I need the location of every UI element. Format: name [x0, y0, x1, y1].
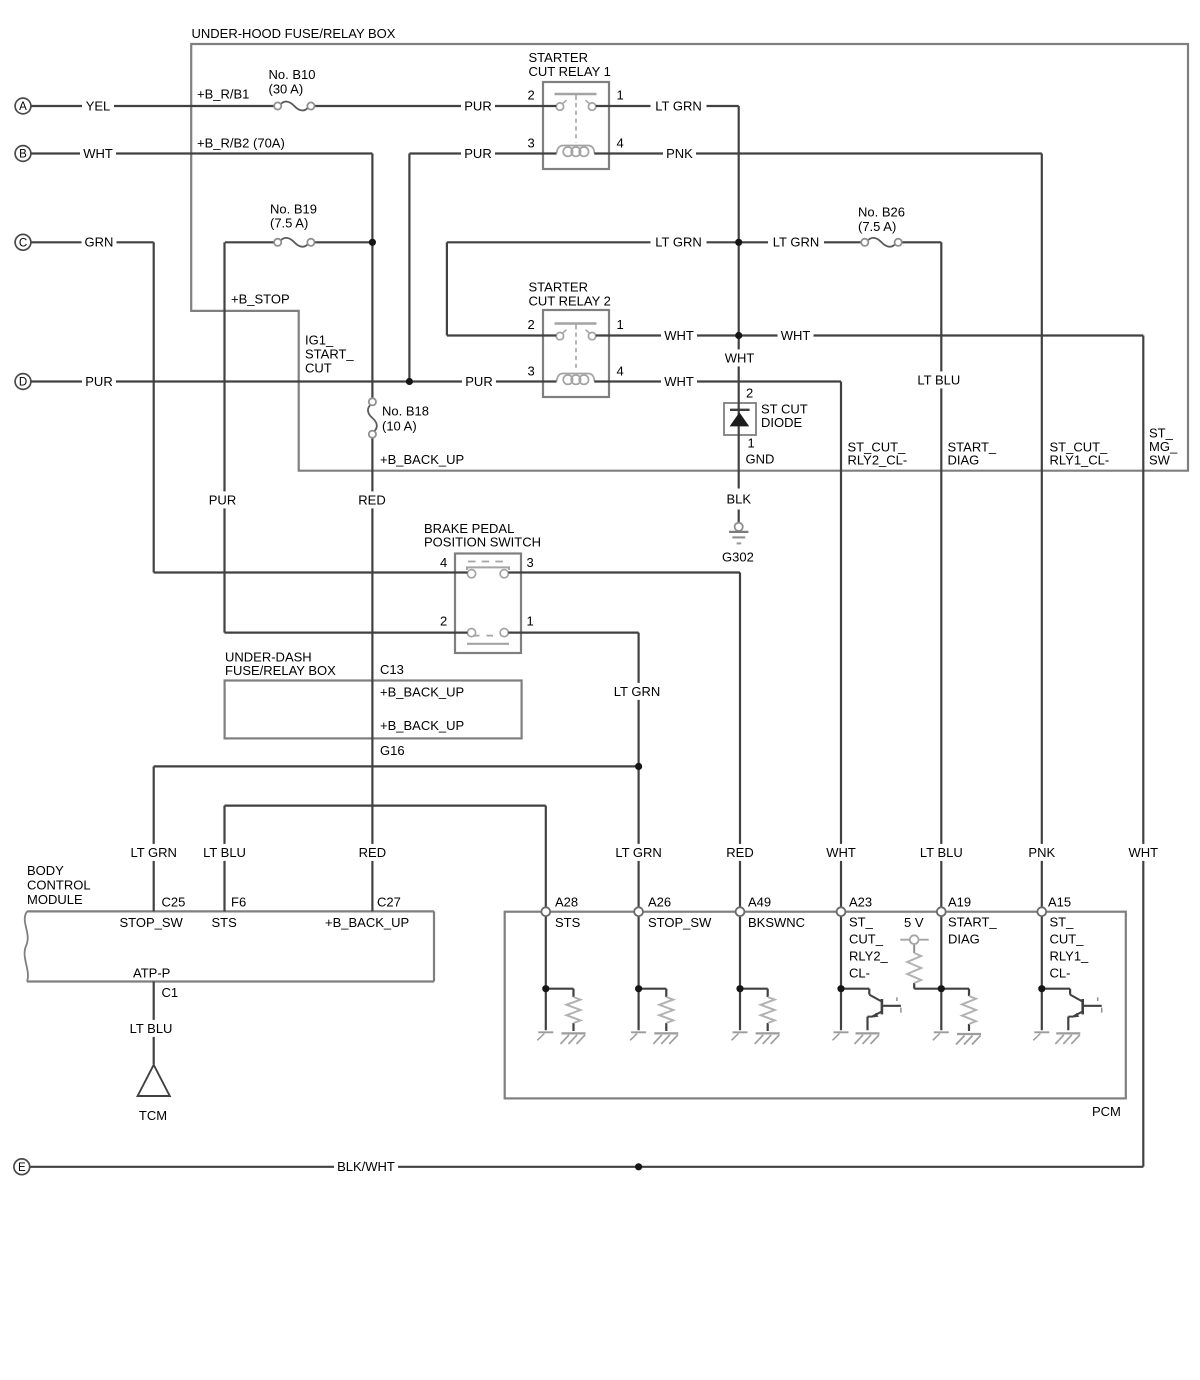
svg-text:4: 4 — [617, 364, 624, 379]
svg-text:POSITION SWITCH: POSITION SWITCH — [424, 535, 541, 550]
svg-text:STARTER: STARTER — [529, 50, 588, 65]
svg-text:C1: C1 — [162, 985, 179, 1000]
svg-text:BLK/WHT: BLK/WHT — [337, 1159, 395, 1174]
svg-text:RLY2_CL-: RLY2_CL- — [848, 453, 908, 468]
svg-text:+B_BACK_UP: +B_BACK_UP — [380, 718, 464, 733]
svg-text:No. B10: No. B10 — [269, 67, 316, 82]
svg-text:4: 4 — [440, 555, 447, 570]
svg-text:A49: A49 — [748, 895, 771, 910]
svg-text:G16: G16 — [380, 743, 405, 758]
svg-text:LT GRN: LT GRN — [655, 98, 701, 113]
svg-text:1: 1 — [617, 317, 624, 332]
svg-text:TCM: TCM — [139, 1108, 167, 1123]
svg-text:CUT RELAY 2: CUT RELAY 2 — [529, 294, 611, 309]
svg-text:5 V: 5 V — [904, 915, 924, 930]
svg-text:E: E — [18, 1162, 26, 1174]
svg-text:STS: STS — [555, 915, 581, 930]
svg-text:+B_R/B2 (70A): +B_R/B2 (70A) — [197, 136, 285, 151]
svg-text:RED: RED — [358, 492, 385, 507]
svg-text:+B_BACK_UP: +B_BACK_UP — [380, 452, 464, 467]
svg-text:WHT: WHT — [826, 845, 856, 860]
svg-text:4: 4 — [617, 136, 624, 151]
svg-text:WHT: WHT — [1128, 845, 1158, 860]
svg-text:STOP_SW: STOP_SW — [120, 915, 184, 930]
svg-text:C25: C25 — [162, 895, 186, 910]
svg-text:LT GRN: LT GRN — [614, 684, 660, 699]
svg-text:PNK: PNK — [1028, 845, 1055, 860]
svg-text:RLY2_: RLY2_ — [849, 949, 889, 964]
svg-text:RLY1_CL-: RLY1_CL- — [1050, 453, 1110, 468]
svg-text:A26: A26 — [648, 895, 671, 910]
svg-text:D: D — [19, 377, 27, 389]
svg-text:GND: GND — [746, 452, 775, 467]
svg-text:WHT: WHT — [83, 146, 113, 161]
svg-text:ATP-P: ATP-P — [133, 966, 170, 981]
svg-text:UNDER-HOOD FUSE/RELAY BOX: UNDER-HOOD FUSE/RELAY BOX — [192, 26, 396, 41]
svg-text:C27: C27 — [377, 895, 401, 910]
svg-text:ST_: ST_ — [1050, 915, 1075, 930]
svg-text:+B_STOP: +B_STOP — [231, 292, 290, 307]
svg-text:3: 3 — [528, 364, 535, 379]
svg-text:CUT_: CUT_ — [849, 932, 884, 947]
svg-text:PUR: PUR — [464, 98, 491, 113]
svg-text:2: 2 — [440, 614, 447, 629]
svg-text:START_: START_ — [948, 915, 997, 930]
svg-text:LT BLU: LT BLU — [203, 845, 246, 860]
svg-text:1: 1 — [617, 88, 624, 103]
svg-text:FUSE/RELAY BOX: FUSE/RELAY BOX — [225, 663, 336, 678]
svg-text:No. B26: No. B26 — [858, 205, 905, 220]
svg-text:BLK: BLK — [727, 491, 752, 506]
svg-text:(7.5 A): (7.5 A) — [270, 216, 308, 231]
svg-text:No. B18: No. B18 — [382, 404, 429, 419]
svg-text:C: C — [19, 238, 27, 250]
svg-text:BKSWNC: BKSWNC — [748, 915, 805, 930]
svg-text:C13: C13 — [380, 662, 404, 677]
svg-text:RED: RED — [359, 845, 386, 860]
svg-text:PUR: PUR — [85, 374, 112, 389]
svg-text:ST_: ST_ — [849, 915, 874, 930]
svg-text:1: 1 — [527, 614, 534, 629]
svg-text:G302: G302 — [722, 550, 754, 565]
svg-text:LT BLU: LT BLU — [920, 845, 963, 860]
svg-text:CUT_: CUT_ — [1050, 932, 1085, 947]
svg-text:2: 2 — [746, 386, 753, 401]
svg-text:CONTROL: CONTROL — [27, 878, 91, 893]
svg-text:A28: A28 — [555, 895, 578, 910]
svg-text:SW: SW — [1149, 453, 1171, 468]
svg-text:YEL: YEL — [86, 98, 111, 113]
svg-text:CUT RELAY 1: CUT RELAY 1 — [529, 64, 611, 79]
svg-text:A15: A15 — [1048, 895, 1071, 910]
svg-text:PUR: PUR — [209, 492, 236, 507]
svg-text:GRN: GRN — [85, 235, 114, 250]
svg-text:LT GRN: LT GRN — [773, 235, 819, 250]
svg-text:(7.5 A): (7.5 A) — [858, 219, 896, 234]
svg-text:WHT: WHT — [725, 350, 755, 365]
svg-text:WHT: WHT — [664, 374, 694, 389]
svg-text:+B_BACK_UP: +B_BACK_UP — [325, 915, 409, 930]
svg-text:RLY1_: RLY1_ — [1050, 949, 1090, 964]
svg-text:+B_R/B1: +B_R/B1 — [197, 87, 249, 102]
svg-text:STARTER: STARTER — [529, 280, 588, 295]
svg-text:A19: A19 — [948, 895, 971, 910]
svg-text:STOP_SW: STOP_SW — [648, 915, 712, 930]
svg-text:2: 2 — [528, 88, 535, 103]
svg-text:WHT: WHT — [781, 328, 811, 343]
svg-text:No. B19: No. B19 — [270, 202, 317, 217]
svg-text:(30 A): (30 A) — [269, 82, 304, 97]
svg-text:START_: START_ — [305, 347, 354, 362]
svg-text:PUR: PUR — [465, 374, 492, 389]
svg-text:LT BLU: LT BLU — [130, 1021, 173, 1036]
svg-text:2: 2 — [528, 317, 535, 332]
svg-text:(10 A): (10 A) — [382, 419, 417, 434]
svg-text:DIAG: DIAG — [948, 453, 980, 468]
svg-text:RED: RED — [726, 845, 753, 860]
svg-text:A: A — [19, 101, 27, 113]
svg-text:PNK: PNK — [666, 146, 693, 161]
svg-text:LT GRN: LT GRN — [130, 845, 176, 860]
svg-text:WHT: WHT — [664, 328, 694, 343]
svg-text:CUT: CUT — [305, 361, 332, 376]
svg-text:B: B — [19, 149, 27, 161]
svg-text:DIAG: DIAG — [948, 932, 980, 947]
svg-text:CL-: CL- — [1050, 966, 1071, 981]
svg-text:3: 3 — [528, 136, 535, 151]
svg-text:1: 1 — [748, 436, 755, 451]
svg-text:LT GRN: LT GRN — [655, 235, 701, 250]
svg-text:3: 3 — [527, 555, 534, 570]
svg-text:PCM: PCM — [1092, 1104, 1121, 1119]
svg-text:CL-: CL- — [849, 966, 870, 981]
svg-text:STS: STS — [212, 915, 238, 930]
svg-text:IG1_: IG1_ — [305, 333, 334, 348]
svg-text:A23: A23 — [849, 895, 872, 910]
svg-text:DIODE: DIODE — [761, 415, 803, 430]
svg-text:BODY: BODY — [27, 863, 64, 878]
svg-text:LT BLU: LT BLU — [917, 372, 960, 387]
svg-text:LT GRN: LT GRN — [615, 845, 661, 860]
svg-text:F6: F6 — [231, 895, 246, 910]
svg-text:MODULE: MODULE — [27, 892, 83, 907]
svg-text:PUR: PUR — [464, 146, 491, 161]
svg-text:+B_BACK_UP: +B_BACK_UP — [380, 685, 464, 700]
